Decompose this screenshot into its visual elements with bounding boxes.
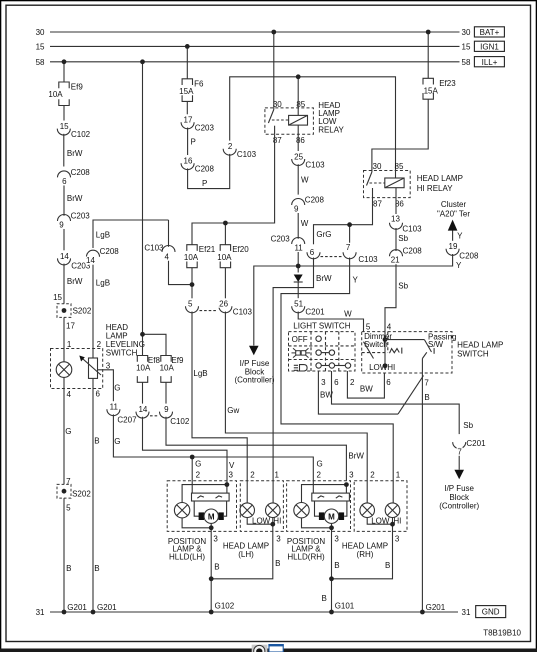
wire xyxy=(372,99,428,172)
wire B xyxy=(211,518,281,579)
splice S202 xyxy=(57,304,92,318)
svg-text:31: 31 xyxy=(36,608,45,617)
wire BrW xyxy=(64,134,83,167)
svg-text:C208: C208 xyxy=(100,247,120,256)
svg-text:58: 58 xyxy=(462,58,471,67)
arrow to I/P fuse block xyxy=(439,470,479,511)
svg-text:C207: C207 xyxy=(117,415,137,424)
svg-text:BrW: BrW xyxy=(67,194,83,203)
svg-text:13: 13 xyxy=(391,214,400,223)
switch head lamp switch box xyxy=(362,323,504,374)
wire Sb xyxy=(396,228,409,251)
svg-text:B: B xyxy=(94,436,99,445)
svg-text:C201: C201 xyxy=(466,439,486,448)
wire LgB xyxy=(93,220,169,248)
svg-text:14: 14 xyxy=(138,405,147,414)
connector C102 pin 9 xyxy=(160,404,190,427)
wire light switch pin 3 BW xyxy=(318,371,398,414)
icon head lamp xyxy=(294,365,307,371)
svg-text:3: 3 xyxy=(334,535,339,544)
svg-text:GrG: GrG xyxy=(316,230,331,239)
wire low relay 86 xyxy=(297,134,299,151)
wire xyxy=(63,62,65,82)
fuse Ef21 10A xyxy=(184,245,216,268)
svg-text:10A: 10A xyxy=(136,364,151,373)
svg-text:C208: C208 xyxy=(459,252,479,261)
svg-text:30: 30 xyxy=(373,162,382,171)
wire LgB xyxy=(93,257,110,358)
wire BrW xyxy=(64,178,83,216)
svg-text:85: 85 xyxy=(395,162,404,171)
svg-text:C103: C103 xyxy=(358,255,378,264)
wire dimmer pin 4 xyxy=(383,332,388,369)
lamp position LH xyxy=(174,503,189,518)
node 58-bus junction xyxy=(140,59,145,64)
wire P xyxy=(188,128,196,156)
svg-text:W: W xyxy=(301,176,309,185)
svg-text:BrW: BrW xyxy=(348,452,364,461)
svg-text:SWITCH: SWITCH xyxy=(106,349,138,358)
svg-text:87: 87 xyxy=(373,200,382,209)
svg-text:C103: C103 xyxy=(233,308,253,317)
node relay coil branch xyxy=(296,74,301,79)
wire xyxy=(297,244,299,273)
fuse Ef23 15A xyxy=(423,78,456,99)
svg-text:C203: C203 xyxy=(195,124,215,133)
svg-text:C208: C208 xyxy=(403,247,423,256)
bus 31 GND xyxy=(36,606,506,618)
svg-text:11: 11 xyxy=(110,403,119,412)
node Ef21 junction xyxy=(190,282,195,287)
svg-text:16: 16 xyxy=(184,157,193,166)
wire pin 3 xyxy=(98,362,121,402)
wire xyxy=(458,447,460,469)
connector C203 pin 11 xyxy=(271,234,305,252)
svg-text:B: B xyxy=(94,564,99,573)
svg-text:HEAD LAMP: HEAD LAMP xyxy=(457,340,503,349)
svg-text:S/W: S/W xyxy=(428,340,444,349)
node lamp RH B junction xyxy=(329,576,334,581)
svg-text:G: G xyxy=(65,427,71,436)
svg-text:B: B xyxy=(385,561,390,570)
svg-text:M: M xyxy=(208,513,215,522)
node W junction xyxy=(296,264,301,269)
wire G LH position xyxy=(192,457,201,493)
wire xyxy=(230,77,396,171)
svg-text:9: 9 xyxy=(294,205,299,214)
svg-text:G: G xyxy=(114,437,120,446)
wire hi beam branch xyxy=(349,225,351,251)
light switch parking contacts xyxy=(316,350,335,355)
fuse F6 15A xyxy=(179,79,204,102)
svg-text:3: 3 xyxy=(106,362,111,371)
ground G101 xyxy=(329,610,334,615)
connector C208 pin 21 xyxy=(390,247,423,265)
svg-text:BW: BW xyxy=(360,384,373,393)
lamp position RH xyxy=(294,503,309,518)
wire xyxy=(64,317,75,361)
fuse Ef9 10A xyxy=(160,356,184,383)
wire xyxy=(211,523,235,612)
wire to RH HLLD xyxy=(166,417,364,481)
svg-text:C103: C103 xyxy=(402,225,422,234)
wire BrW xyxy=(53,264,83,304)
svg-text:I/P Fuse: I/P Fuse xyxy=(444,484,474,493)
motor HLLD RH xyxy=(315,501,347,523)
node HLLD RH pin 3 xyxy=(344,482,349,487)
svg-text:31: 31 xyxy=(462,608,471,617)
svg-text:W: W xyxy=(301,219,309,228)
svg-text:G102: G102 xyxy=(215,601,235,610)
svg-text:B: B xyxy=(424,393,429,402)
bus 30 BAT+ xyxy=(36,27,505,37)
wire V to LH HLLD xyxy=(143,417,236,485)
svg-text:C102: C102 xyxy=(71,130,91,139)
node hi beam branch xyxy=(347,222,352,227)
wire xyxy=(367,518,392,525)
svg-text:6: 6 xyxy=(310,248,315,257)
svg-text:17: 17 xyxy=(184,116,193,125)
node Ef20 tap xyxy=(223,221,228,226)
svg-text:IGN1: IGN1 xyxy=(480,43,499,52)
node motor branch xyxy=(329,525,334,530)
connector C103 pin 26 xyxy=(200,298,253,316)
svg-text:15: 15 xyxy=(53,293,62,302)
svg-text:C103: C103 xyxy=(305,160,325,169)
svg-text:B: B xyxy=(214,563,219,572)
svg-text:HI: HI xyxy=(387,363,395,372)
svg-text:1: 1 xyxy=(67,340,72,349)
connector C102 pin 14 xyxy=(136,404,159,419)
svg-text:G: G xyxy=(114,384,120,393)
wire Gw to RH low beam xyxy=(225,312,375,503)
wire LgB branch xyxy=(169,220,193,285)
head lamp leveling switch box xyxy=(51,323,145,389)
svg-text:4: 4 xyxy=(164,253,169,262)
svg-text:F6: F6 xyxy=(194,79,204,88)
svg-text:14: 14 xyxy=(86,256,95,265)
svg-text:26: 26 xyxy=(219,300,228,309)
svg-text:Ef9: Ef9 xyxy=(71,83,84,92)
svg-text:HI RELAY: HI RELAY xyxy=(417,184,454,193)
wire Y to RH hi beam xyxy=(281,258,401,503)
arrow to cluster xyxy=(437,200,470,231)
wire xyxy=(191,268,193,285)
wire light switch pin 6 Sb xyxy=(332,371,474,437)
connector C208 pin 19 xyxy=(446,241,479,261)
wire xyxy=(302,485,347,503)
dimmer switch lever xyxy=(364,342,402,372)
svg-text:2: 2 xyxy=(350,378,355,387)
svg-text:C201: C201 xyxy=(305,308,325,317)
node G branch xyxy=(190,455,195,460)
potentiometer leveling switch xyxy=(79,356,101,379)
node Ef8/Ef9 branch xyxy=(140,332,145,337)
ground G201 xyxy=(62,610,67,615)
svg-text:"A20" Ter: "A20" Ter xyxy=(437,209,470,218)
wire P xyxy=(188,154,230,189)
wire to I/P fuse block xyxy=(254,266,298,346)
svg-text:1: 1 xyxy=(275,471,280,480)
svg-text:58: 58 xyxy=(36,58,45,67)
switch light switch xyxy=(289,322,356,371)
svg-text:2: 2 xyxy=(317,471,322,480)
svg-text:10A: 10A xyxy=(48,90,63,99)
wire xyxy=(63,106,65,121)
connector C103 pin 7 xyxy=(321,243,379,264)
wire G xyxy=(113,414,192,457)
svg-text:4: 4 xyxy=(67,390,72,399)
svg-text:SWITCH: SWITCH xyxy=(457,350,489,359)
svg-text:14: 14 xyxy=(60,252,69,261)
wire passing switch pin 7 B xyxy=(422,359,445,613)
connector C103 pin 2 xyxy=(223,141,256,159)
connector C203 pin 9 xyxy=(58,211,91,229)
svg-text:G201: G201 xyxy=(97,603,117,612)
wire xyxy=(142,382,144,404)
wire xyxy=(142,62,144,335)
svg-text:3: 3 xyxy=(229,471,234,480)
bus 15 IGN1 xyxy=(36,41,505,52)
node 15-bus junction xyxy=(185,44,190,49)
ground G201 xyxy=(91,610,96,615)
svg-text:Block: Block xyxy=(449,493,470,502)
icon window xyxy=(268,644,283,652)
svg-text:Y: Y xyxy=(353,276,359,285)
svg-text:5: 5 xyxy=(66,504,71,513)
svg-text:Ef21: Ef21 xyxy=(199,245,216,254)
svg-text:G201: G201 xyxy=(426,603,446,612)
wire LgB xyxy=(192,268,225,300)
svg-text:ILL+: ILL+ xyxy=(482,58,498,67)
svg-text:10A: 10A xyxy=(184,253,199,262)
lamp low beam RH xyxy=(360,503,390,526)
svg-text:(RH): (RH) xyxy=(357,550,374,559)
svg-text:15: 15 xyxy=(462,42,471,51)
wire Ef20 tap xyxy=(224,223,226,245)
ground G201 xyxy=(420,610,425,615)
svg-text:15: 15 xyxy=(60,122,69,131)
wire pin 6 xyxy=(93,378,117,612)
connector C102 pin 15 xyxy=(57,121,90,139)
svg-text:V: V xyxy=(229,461,235,470)
HLLD actuator LH xyxy=(192,485,230,501)
svg-text:C203: C203 xyxy=(271,234,291,243)
connector C208 pin 9 xyxy=(292,195,325,213)
svg-text:10A: 10A xyxy=(160,364,175,373)
wire xyxy=(273,32,275,110)
svg-text:LgB: LgB xyxy=(96,231,110,240)
splice S202 xyxy=(57,484,91,498)
svg-text:BrW: BrW xyxy=(67,149,83,158)
wire xyxy=(427,32,429,78)
wire B xyxy=(332,518,400,579)
svg-text:(Controller): (Controller) xyxy=(439,502,479,511)
svg-text:15A: 15A xyxy=(179,87,194,96)
svg-text:Sb: Sb xyxy=(398,282,408,291)
svg-text:11: 11 xyxy=(294,244,303,253)
svg-text:2: 2 xyxy=(196,471,201,480)
lamp hi beam LH xyxy=(266,503,282,526)
icon viewer xyxy=(252,645,268,652)
connector C208 pin 6 xyxy=(58,168,91,186)
svg-text:C103: C103 xyxy=(144,244,164,253)
box head lamp LH xyxy=(223,481,284,559)
svg-text:C208: C208 xyxy=(71,168,91,177)
node HLLD LH pin 3 xyxy=(225,482,230,487)
svg-text:BAT+: BAT+ xyxy=(480,28,500,37)
wire xyxy=(186,101,188,114)
svg-text:5: 5 xyxy=(188,300,193,309)
wire light switch pin 2 BW xyxy=(347,371,391,398)
svg-text:(Controller): (Controller) xyxy=(234,376,274,385)
node 30-bus junction xyxy=(426,30,431,35)
wire cluster branch xyxy=(298,254,462,270)
node head lamp LH junction xyxy=(270,522,275,527)
svg-text:S202: S202 xyxy=(73,306,92,315)
wire Sb to passing switch xyxy=(385,256,409,331)
connector C103 pin 5 xyxy=(186,298,199,313)
svg-text:10A: 10A xyxy=(217,253,232,262)
svg-text:6: 6 xyxy=(62,177,67,186)
wire G xyxy=(64,377,72,486)
svg-text:3: 3 xyxy=(321,378,326,387)
connector C203 pin 17 xyxy=(181,114,214,132)
svg-text:(LH): (LH) xyxy=(238,550,254,559)
svg-text:25: 25 xyxy=(294,152,303,161)
svg-text:Ef20: Ef20 xyxy=(232,245,249,254)
wire xyxy=(186,46,188,78)
wire W xyxy=(298,164,309,194)
svg-text:19: 19 xyxy=(449,242,458,251)
svg-text:30: 30 xyxy=(36,28,45,37)
fuse Ef20 10A xyxy=(217,245,249,268)
svg-text:Y: Y xyxy=(456,261,462,270)
node lamp LH B junction xyxy=(209,576,214,581)
svg-text:Sb: Sb xyxy=(398,234,408,243)
svg-text:17: 17 xyxy=(66,322,75,331)
svg-text:3: 3 xyxy=(395,535,400,544)
bus 58 ILL+ xyxy=(36,57,505,68)
connector C207 pin 11 xyxy=(107,401,137,424)
box position lamp LH xyxy=(167,481,236,562)
wire xyxy=(143,334,167,355)
wire diagonal to pin 7 xyxy=(398,376,424,415)
svg-text:Gw: Gw xyxy=(227,406,239,415)
svg-text:HLLD(LH): HLLD(LH) xyxy=(169,552,205,561)
svg-text:BrW: BrW xyxy=(316,274,332,283)
svg-text:15: 15 xyxy=(36,42,45,51)
svg-text:G101: G101 xyxy=(335,601,355,610)
svg-text:GND: GND xyxy=(482,608,500,617)
wire LgB to LH low beam xyxy=(192,312,255,503)
wire low relay 87 xyxy=(192,134,275,244)
ground G102 xyxy=(209,610,214,615)
connector C201 pin 7 xyxy=(453,434,486,456)
wire xyxy=(302,518,332,528)
svg-text:RELAY: RELAY xyxy=(318,125,344,134)
wire xyxy=(182,518,211,528)
light switch head contacts xyxy=(316,363,351,368)
svg-text:S202: S202 xyxy=(72,490,91,499)
svg-text:Cluster: Cluster xyxy=(441,200,467,209)
wire xyxy=(182,485,227,503)
icon parking lamps xyxy=(292,348,311,357)
svg-text:6: 6 xyxy=(96,389,101,398)
svg-text:OFF: OFF xyxy=(292,335,308,344)
svg-text:B: B xyxy=(275,559,280,568)
svg-text:9: 9 xyxy=(59,221,64,230)
svg-text:5: 5 xyxy=(366,323,371,332)
svg-text:51: 51 xyxy=(294,300,303,309)
svg-text:G: G xyxy=(195,460,201,469)
svg-text:B: B xyxy=(322,594,327,603)
connector C103 pin 4 xyxy=(144,244,175,262)
connector C208 pin 14 xyxy=(86,247,119,265)
lamp low beam LH xyxy=(240,503,271,526)
svg-text:86: 86 xyxy=(296,136,305,145)
node head lamp RH junction xyxy=(390,522,395,527)
svg-text:HLLD(RH): HLLD(RH) xyxy=(287,552,325,561)
svg-text:LgB: LgB xyxy=(193,369,207,378)
fuse Ef9 10A xyxy=(48,82,83,106)
svg-text:B: B xyxy=(66,564,71,573)
svg-text:P: P xyxy=(191,138,196,147)
svg-text:2: 2 xyxy=(97,340,102,349)
svg-text:7: 7 xyxy=(457,447,462,456)
svg-text:4: 4 xyxy=(387,323,392,332)
wire xyxy=(247,518,273,525)
svg-text:B: B xyxy=(334,561,339,570)
relay head lamp hi relay xyxy=(364,162,463,209)
svg-text:C103: C103 xyxy=(237,150,257,159)
connector C203 pin 14 xyxy=(58,250,91,270)
wire hi relay 87 GrG xyxy=(314,198,373,251)
connector C103 pin 25 xyxy=(292,151,325,169)
wire B xyxy=(64,498,87,612)
svg-text:LgB: LgB xyxy=(96,279,110,288)
fuse Ef8 10A xyxy=(136,334,160,382)
svg-text:21: 21 xyxy=(391,256,400,265)
svg-text:LIGHT SWITCH: LIGHT SWITCH xyxy=(293,322,350,331)
svg-text:2: 2 xyxy=(250,471,255,480)
svg-text:G201: G201 xyxy=(67,603,87,612)
wire BrW to LH hi beam xyxy=(273,258,332,503)
svg-text:HEAD LAMP: HEAD LAMP xyxy=(417,174,463,183)
HLLD actuator RH xyxy=(312,485,350,501)
svg-text:2: 2 xyxy=(228,142,233,151)
node 58-bus junction xyxy=(62,59,67,64)
node motor branch xyxy=(209,525,214,530)
wire xyxy=(165,382,167,404)
svg-text:C208: C208 xyxy=(305,195,325,204)
svg-text:30: 30 xyxy=(462,28,471,37)
wire G to RH position lamp xyxy=(192,457,323,493)
svg-text:P: P xyxy=(202,179,207,188)
svg-text:C203: C203 xyxy=(71,211,91,220)
motor HLLD LH xyxy=(194,501,226,523)
wire xyxy=(322,523,355,612)
box position lamp RH xyxy=(287,481,351,562)
svg-text:7: 7 xyxy=(424,379,429,388)
connector C103 pin 13 xyxy=(390,214,423,233)
svg-text:C208: C208 xyxy=(195,165,215,174)
box head lamp RH xyxy=(342,481,407,559)
svg-text:9: 9 xyxy=(164,405,169,414)
svg-text:3: 3 xyxy=(213,535,218,544)
connector C201 pin 51 xyxy=(292,298,325,316)
diode light switch feed xyxy=(294,275,303,299)
